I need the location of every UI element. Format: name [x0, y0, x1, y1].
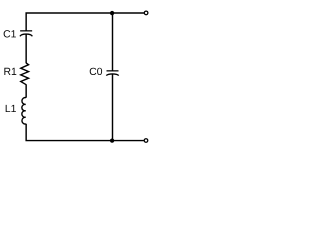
junction dot bottom — [110, 139, 114, 143]
wire C1 to R1 — [25, 34, 27, 63]
wire top rail and left corner — [26, 13, 144, 30]
junction dot top — [110, 11, 114, 15]
label R1 — [4, 68, 16, 75]
capacitor C1 top plate — [20, 30, 32, 32]
terminal top right — [144, 11, 148, 15]
wire L1 to bottom corner and bottom rail — [26, 124, 144, 141]
label C1 — [4, 30, 16, 37]
terminal bottom right — [144, 139, 148, 143]
wire middle branch upper segment — [112, 13, 114, 71]
resistor R1 zigzag — [21, 63, 29, 85]
wire C0 to bottom rail — [112, 74, 114, 140]
capacitor C0 top plate — [107, 70, 119, 72]
label C0 — [90, 68, 102, 75]
label L1 — [6, 105, 16, 112]
capacitor C0 curved plate — [106, 74, 118, 76]
inductor L1 coil — [22, 98, 26, 125]
wire R1 to L1 — [25, 84, 27, 97]
capacitor C1 curved plate — [20, 34, 32, 36]
